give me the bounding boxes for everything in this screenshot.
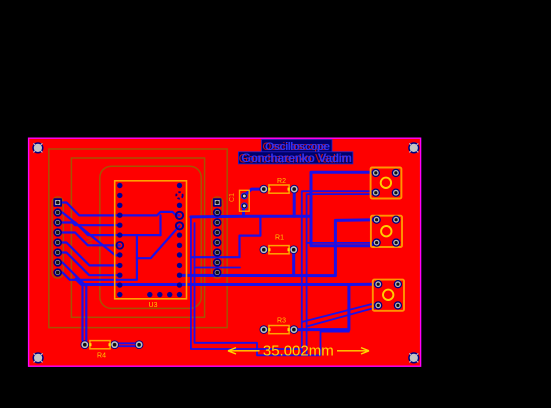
IC U3 right ring pad 1 — [176, 212, 183, 219]
wire vertical pair right run — [195, 223, 349, 355]
resistor R2 — [260, 178, 299, 193]
silkscreen rect A (outer) — [49, 149, 227, 328]
svg-text:35.002mm: 35.002mm — [263, 343, 334, 360]
button S2 — [371, 216, 402, 248]
silkscreen rect B (middle) — [71, 158, 204, 317]
silkscreen rect C (inner rounded) — [100, 166, 202, 308]
wire staircase from C1 net down-left — [191, 216, 261, 257]
wire R4 middle to right pad b — [115, 345, 140, 347]
IC U3 left ring pad — [116, 242, 123, 249]
mounting hole bottom-left — [33, 352, 44, 363]
header SV1 pads — [53, 198, 62, 207]
wire header p2 long diagonal to IC pad — [58, 213, 120, 256]
wire inside IC to right ring pad diagonal — [137, 226, 180, 258]
IC U3 left pad column — [117, 183, 122, 297]
wire branch to R4 second vertical — [74, 274, 86, 344]
wire header p7 to R4 — [58, 263, 85, 345]
wire bus to button S2 top pad — [180, 220, 376, 276]
svg-text:R1: R1 — [275, 235, 284, 242]
wire header p8 under IC — [58, 236, 137, 280]
wire diagonal pair to button S3 lower pad a — [302, 304, 378, 322]
wire branch to button S3 top-left pad — [349, 283, 378, 286]
wire branch to IC pad row 225 — [72, 222, 120, 226]
wire diagonal pair to button S3 lower pad b — [307, 306, 379, 327]
wire C1 net left branch through header gap — [191, 215, 244, 219]
button S1 — [371, 168, 402, 199]
resistor R3 — [260, 318, 299, 334]
wire right pair up run — [307, 193, 376, 356]
wire header gap stub — [195, 267, 241, 269]
resistor R1 — [260, 235, 299, 255]
dimension arrows and text 35.002mm — [228, 348, 369, 354]
wire R2 left pad to C1 top — [244, 189, 263, 195]
wire header p6 to IC pad — [58, 253, 120, 276]
wire header p5 to IC pad — [58, 243, 120, 266]
IC U3 outline — [115, 181, 187, 299]
wire C1 net down to button S2 lower pad — [311, 216, 377, 246]
wire R2 right pad join — [293, 190, 296, 216]
IC U3 right ring pad 2 — [176, 222, 183, 229]
title text Oscilloscope — [262, 140, 333, 154]
silkscreen capsule header SV1 — [52, 197, 63, 278]
wire long bus to R3 — [76, 279, 349, 330]
resistor R4 — [81, 340, 119, 359]
wire header p4 to IC ring pad — [58, 233, 120, 246]
mounting hole bottom-right — [408, 352, 419, 363]
IC U3 right pad column — [177, 183, 182, 297]
capacitor C1 — [229, 190, 249, 211]
IC U3 right dashed pad — [176, 192, 182, 198]
wire R4 middle to right pad a — [115, 342, 140, 344]
wire branch inside IC up — [159, 215, 161, 235]
pad right of R4 — [135, 340, 144, 349]
button S3 — [373, 280, 404, 311]
svg-text:U3: U3 — [149, 302, 158, 309]
svg-text:R3: R3 — [277, 318, 286, 325]
mounting hole top-left — [32, 142, 43, 153]
wire branch pair to button S2 lower pad a — [307, 242, 377, 244]
mounting hole top-right — [408, 142, 419, 153]
PCB board outline — [29, 138, 421, 366]
header SV2 pads — [213, 198, 222, 207]
title text Goncharenko Vadim — [238, 151, 353, 165]
svg-text:C1: C1 — [229, 193, 236, 202]
silkscreen capsule header SV2 — [212, 197, 223, 278]
svg-text:R4: R4 — [97, 353, 106, 360]
svg-text:Goncharenko Vadim: Goncharenko Vadim — [242, 151, 352, 165]
wire C1 net to button S1 — [244, 172, 376, 216]
IC U3 bottom row pads — [147, 292, 172, 297]
wire right pair left stub — [301, 349, 303, 355]
wire header p1 to right ring pad with jog — [58, 203, 180, 216]
wire R1 right pad down — [292, 251, 295, 276]
svg-text:R2: R2 — [277, 178, 286, 185]
wire vertical pair left run — [191, 191, 376, 349]
wire header p3 into IC — [58, 223, 161, 236]
